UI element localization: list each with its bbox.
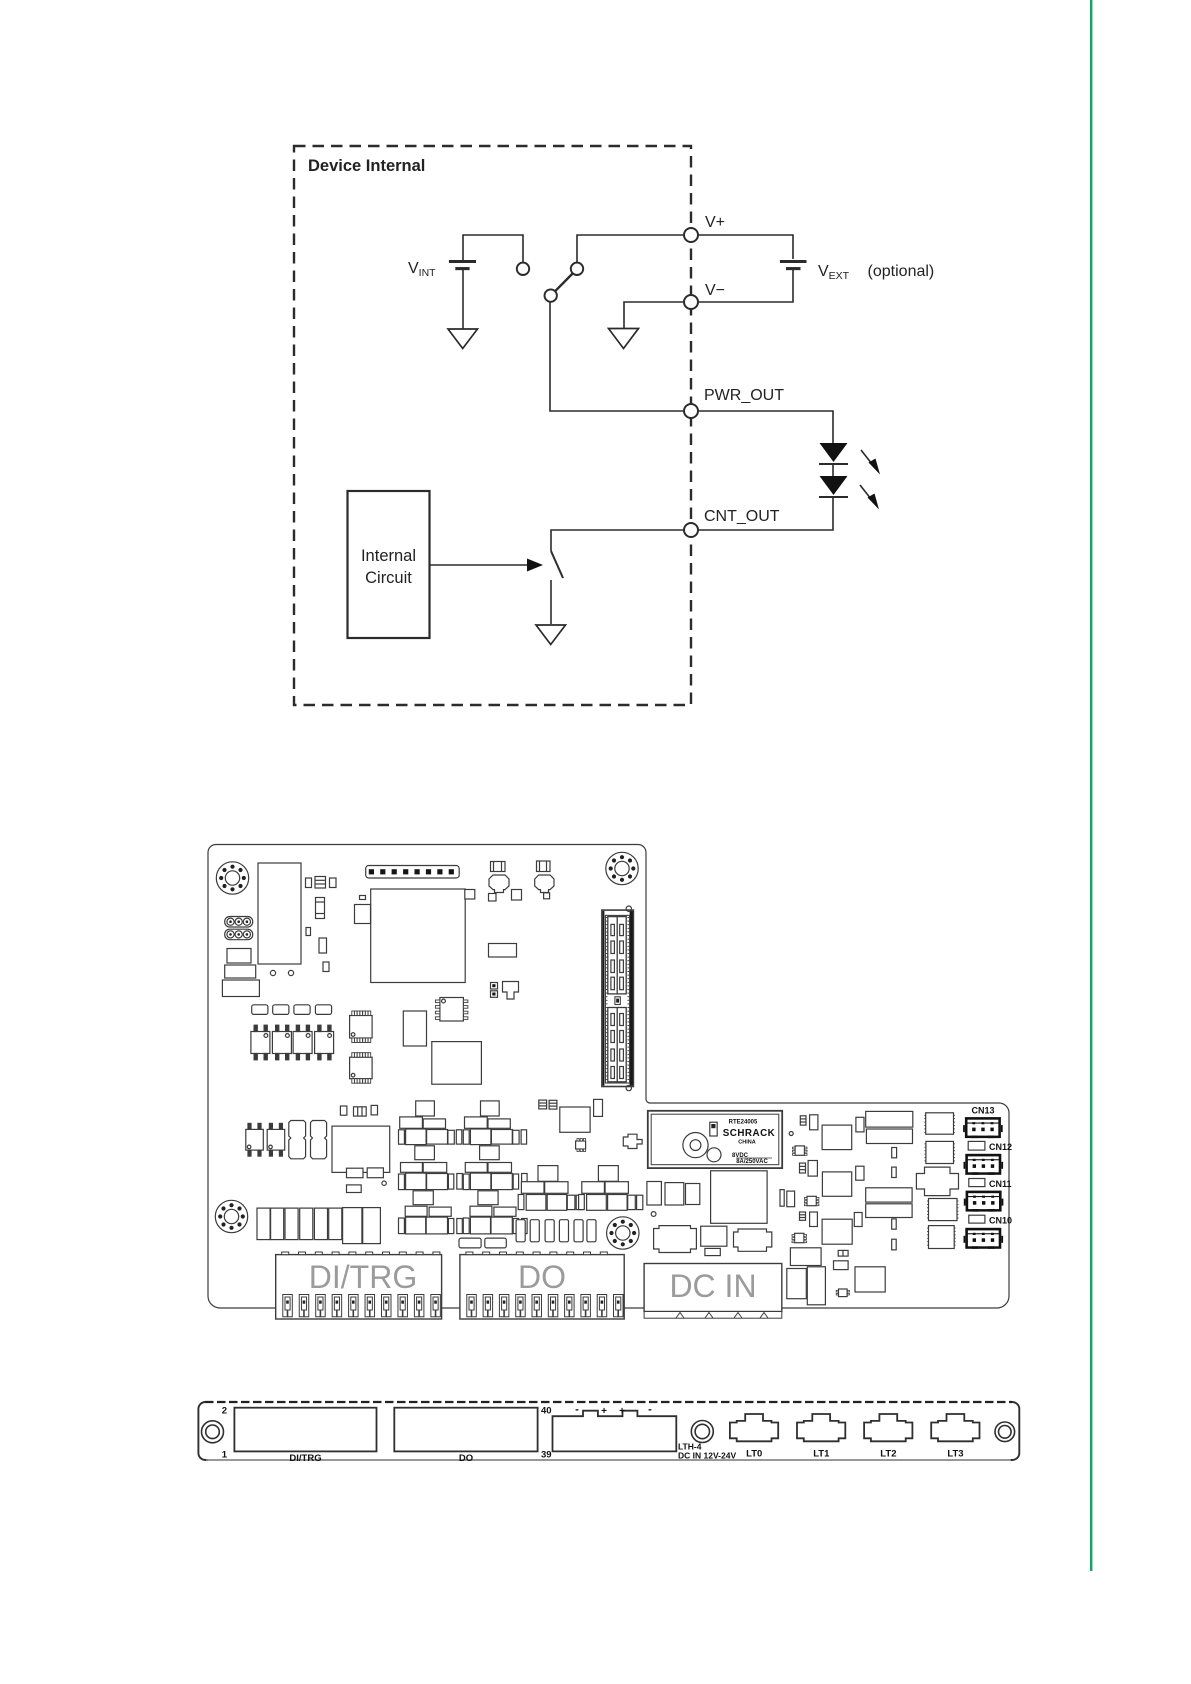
driver brick stack 2 — [463, 1101, 527, 1234]
svg-text:39: 39 — [541, 1450, 552, 1461]
svg-text:LT3: LT3 — [947, 1449, 963, 1460]
small vert r2 — [892, 1167, 897, 1177]
rect m1 — [810, 1115, 818, 1130]
rect stack 1 — [227, 949, 251, 964]
panel jack LT0 — [730, 1414, 778, 1441]
pads under stacks — [459, 1238, 481, 1248]
wire switch common down to PWR_OUT node — [550, 301, 684, 411]
panel jack LT3 — [931, 1414, 979, 1441]
wire PWR_OUT node to LED string — [698, 411, 833, 443]
small vert b — [856, 1166, 864, 1180]
hatched square h1 — [924, 1113, 955, 1134]
tiny IC m2 — [804, 1196, 818, 1205]
svg-text:V+: V+ — [705, 214, 725, 231]
svg-text:-: - — [575, 1404, 579, 1416]
rects under relay r3 — [686, 1184, 700, 1205]
odd plus part bottom 1 — [654, 1226, 697, 1253]
tall rect right of DCIN 1 — [787, 1269, 807, 1299]
big square Q area — [711, 1171, 768, 1224]
small vert r4 — [892, 1239, 897, 1250]
connector CN13 — [963, 1117, 1003, 1138]
big IC U10 — [432, 1042, 482, 1085]
svg-text:40: 40 — [541, 1406, 552, 1417]
panel screw right — [995, 1422, 1015, 1442]
LED D1 — [820, 443, 848, 462]
notched rect bottom — [734, 1229, 772, 1251]
svg-text:Device Internal: Device Internal — [308, 157, 425, 175]
panel DI/TRG cutout — [234, 1408, 376, 1452]
DI/TRG pins — [283, 1295, 441, 1317]
striped cap m1 — [800, 1116, 806, 1125]
rect bottom r1 — [701, 1226, 727, 1246]
pad near SW2 — [544, 893, 550, 899]
tiny IC with pins — [576, 1139, 586, 1152]
plus-shaped part — [623, 1134, 642, 1148]
tiny IC m1 — [793, 1146, 808, 1155]
ground for output switch — [536, 625, 566, 645]
device internal dashed boundary box — [294, 146, 691, 705]
panel screw mid — [691, 1421, 713, 1443]
rect part mid — [560, 1107, 590, 1132]
rects under relay r1 — [647, 1182, 662, 1206]
tiny parts bottom m — [838, 1250, 848, 1256]
svg-text:SCHRACK: SCHRACK — [723, 1128, 776, 1139]
pin header J1 — [366, 866, 460, 879]
connector DC IN block — [644, 1264, 782, 1319]
notched relay part 2 — [311, 1121, 327, 1159]
mounting hole bottom-middle — [607, 1217, 639, 1249]
svg-text:+: + — [601, 1406, 607, 1417]
via — [789, 1132, 793, 1136]
big IC U13 — [332, 1126, 390, 1172]
vertical caps row — [257, 1208, 270, 1240]
small vert r3 — [892, 1219, 897, 1229]
connector DI/TRG block — [276, 1252, 442, 1319]
LED light arrow 1 — [861, 450, 880, 475]
node V+ — [684, 228, 698, 242]
svg-text:DO: DO — [518, 1259, 566, 1295]
svg-text:DI/TRG: DI/TRG — [309, 1259, 417, 1295]
via under relay — [651, 1212, 656, 1217]
pushbutton SW2 body — [535, 875, 554, 893]
output transistor switch — [551, 551, 563, 578]
pads near SW1 — [489, 894, 497, 902]
svg-text:Internal: Internal — [361, 547, 416, 565]
LED light arrow 2 — [860, 485, 879, 510]
big rect C — [822, 1219, 852, 1244]
svg-text:CN12: CN12 — [989, 1142, 1012, 1152]
battery V_INT — [449, 262, 476, 330]
square right of DCIN — [855, 1267, 885, 1292]
hatched square h2 — [924, 1141, 955, 1163]
svg-text:DC IN: DC IN — [669, 1268, 756, 1304]
cap row C1-C4 — [252, 1005, 268, 1015]
SOIC U8 — [350, 1053, 373, 1084]
svg-text:-: - — [648, 1404, 652, 1416]
panel jack LT1 — [797, 1414, 845, 1441]
ground for V_INT — [448, 329, 478, 349]
svg-text:1: 1 — [222, 1450, 228, 1461]
wire output switch to ground — [550, 580, 552, 624]
tall rect right of DCIN 2 — [807, 1267, 825, 1305]
rect stack 3 — [222, 980, 259, 997]
small bottom r — [705, 1248, 720, 1255]
optocoupler row U3-U6 — [251, 1025, 270, 1060]
opto U11 — [246, 1123, 263, 1156]
caps row under stacks — [516, 1220, 525, 1242]
small pads under U13 — [347, 1168, 364, 1178]
rect stack 2 — [225, 965, 256, 978]
pushbutton SW1 body — [489, 875, 509, 893]
mounting hole bottom-left — [215, 1200, 247, 1232]
battery V_EXT — [780, 262, 807, 269]
small part — [319, 938, 327, 953]
CN11 pad — [969, 1179, 985, 1187]
svg-text:Circuit: Circuit — [365, 569, 412, 587]
via pair — [270, 970, 275, 975]
svg-text:2: 2 — [222, 1406, 227, 1417]
wire VEXT bottom to V- node — [698, 269, 793, 302]
jumper block row 1 — [225, 917, 253, 928]
svg-text:DC IN 12V-24V: DC IN 12V-24V — [678, 1451, 736, 1461]
pushbutton SW2 top — [537, 861, 551, 872]
wide rect pair 2b — [866, 1204, 912, 1218]
internal circuit block — [348, 491, 430, 638]
svg-text:V−: V− — [705, 282, 725, 299]
wide rect pair 1a — [866, 1111, 913, 1127]
notched part — [503, 982, 519, 1000]
U1 left part — [355, 905, 371, 924]
small parts row right of big rect — [306, 878, 312, 888]
node PWR_OUT — [684, 404, 698, 418]
connector CN10 — [964, 1228, 1004, 1249]
electrolytic cap area big rect — [258, 863, 301, 964]
SOIC U7 — [350, 1011, 373, 1043]
CN12 pad — [968, 1141, 985, 1150]
svg-text:CN13: CN13 — [971, 1106, 994, 1116]
driver brick stack 3 — [518, 1166, 582, 1211]
two tall rects — [343, 1208, 362, 1244]
driver brick stack 4 — [579, 1166, 643, 1211]
plus-shaped big part — [916, 1167, 958, 1196]
striped component — [316, 898, 325, 919]
rect part — [403, 1011, 426, 1046]
small part — [323, 962, 329, 972]
relay K1 SCHRACK — [648, 1111, 782, 1168]
svg-text:CHINA: CHINA — [738, 1140, 755, 1146]
svg-text:CNT_OUT: CNT_OUT — [704, 508, 780, 525]
jumper block row 2 — [225, 929, 253, 940]
control arrow from internal circuit to switch — [430, 564, 529, 566]
panel DO cutout — [394, 1408, 537, 1452]
panel jack LT2 — [864, 1414, 912, 1441]
small pad — [306, 928, 311, 936]
green page margin rule — [1090, 0, 1092, 1571]
SOIC8 U9 — [435, 998, 468, 1022]
big rect A — [822, 1125, 852, 1150]
DO pins — [467, 1295, 623, 1317]
card-edge connector CN1 — [602, 906, 634, 1091]
striped caps pair — [539, 1100, 547, 1109]
tall small rect — [594, 1099, 603, 1116]
striped cap m2 — [800, 1163, 806, 1173]
rect m3 — [810, 1212, 818, 1227]
panel DC IN cutout with key notches — [553, 1411, 677, 1452]
svg-text:CN11: CN11 — [989, 1179, 1012, 1189]
svg-text:RTE24005: RTE24005 — [729, 1120, 758, 1126]
svg-text:LT1: LT1 — [813, 1449, 830, 1460]
rects under relay r2 — [665, 1183, 684, 1205]
svg-text:+: + — [619, 1406, 625, 1417]
panel screw left — [202, 1421, 224, 1443]
small caps trio — [340, 1106, 347, 1115]
opto U12 — [267, 1123, 285, 1156]
wide rect pair 2a — [866, 1188, 912, 1202]
wire LED string to CNT_OUT node — [698, 497, 833, 530]
mid rect R area — [489, 944, 517, 958]
small vert r1 — [892, 1148, 897, 1158]
node V- — [684, 295, 698, 309]
svg-text:8A/250VAC: 8A/250VAC — [736, 1159, 768, 1165]
wire CNT_OUT node to output switch — [551, 530, 684, 551]
big rect B — [822, 1172, 851, 1196]
hatched square h3 — [927, 1199, 959, 1221]
driver brick stack 1 — [399, 1101, 463, 1234]
main IC U1 — [371, 889, 466, 983]
panel faceplate outline — [198, 1402, 1019, 1460]
wide rect pair 1b — [866, 1129, 912, 1144]
mounting hole top-right — [606, 852, 638, 884]
hatched square h4 — [927, 1226, 956, 1249]
rect m2 — [808, 1161, 817, 1177]
wire V+ to VEXT battery — [698, 235, 793, 259]
node CNT_OUT — [684, 523, 698, 537]
switch S1 throw contact — [571, 263, 583, 275]
switch S1 pole contact — [517, 263, 529, 275]
CN10 pad — [969, 1215, 985, 1223]
small vert a — [856, 1117, 864, 1132]
left pair near DCIN — [780, 1190, 784, 1207]
PCB board outline — [208, 845, 1009, 1309]
svg-text:PWR_OUT: PWR_OUT — [704, 387, 784, 404]
connector CN11 — [964, 1191, 1004, 1212]
svg-text:CN10: CN10 — [989, 1216, 1012, 1226]
striped cap m3 — [800, 1212, 806, 1220]
rect bottom m — [790, 1248, 821, 1266]
ground for V- — [609, 329, 639, 349]
tiny IC right of DCIN — [836, 1289, 849, 1297]
switch S1 lever — [555, 274, 573, 292]
wire V_INT top to switch pole — [463, 235, 523, 263]
mounting hole top-left — [216, 862, 248, 894]
two tiny pads — [491, 983, 498, 990]
tiny IC m3 — [792, 1233, 807, 1242]
svg-text:LT2: LT2 — [880, 1449, 896, 1460]
svg-text:DI/TRG: DI/TRG — [289, 1453, 321, 1464]
connector DO block — [460, 1252, 624, 1319]
wire V- node to ground stub — [624, 302, 684, 328]
LED D2 — [820, 476, 848, 495]
U1 corner pad — [465, 890, 475, 900]
svg-text:DO: DO — [459, 1453, 473, 1464]
small vert c — [854, 1213, 862, 1227]
pushbutton SW1 top — [491, 862, 506, 872]
switch S1 common contact — [545, 289, 557, 301]
wire switch throw up to V+ rail — [577, 235, 684, 263]
connector CN12 — [964, 1154, 1004, 1175]
svg-text:LT0: LT0 — [746, 1449, 762, 1460]
notched relay part 1 — [289, 1121, 306, 1159]
